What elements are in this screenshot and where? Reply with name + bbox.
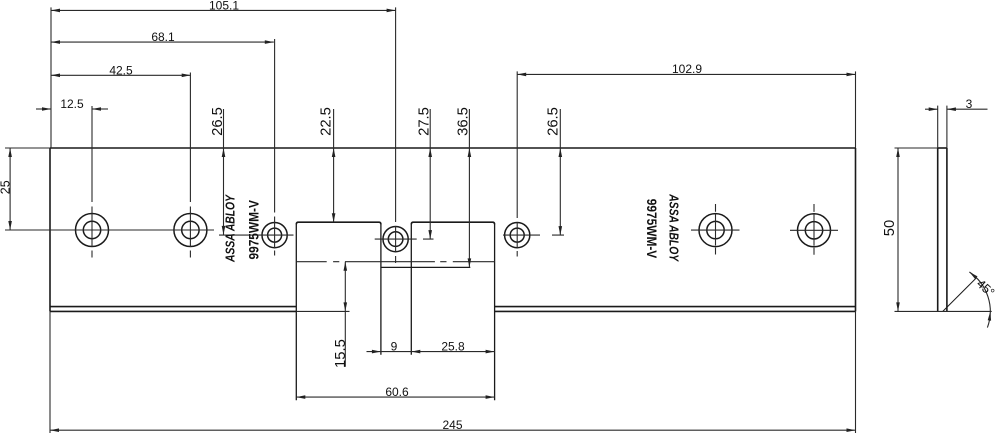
arrows 27.5	[428, 148, 432, 157]
arrows 105.1	[51, 9, 60, 13]
hole H6 inner	[805, 222, 822, 239]
angle 45 arc	[969, 272, 990, 328]
svg-text:25: 25	[0, 180, 13, 194]
pocket dash-dot centerline	[296, 261, 494, 263]
centerline HM vertical	[395, 7, 397, 263]
arrows 12.5 outside	[42, 107, 51, 111]
dim line 42.5	[51, 74, 191, 76]
centerline holes H1 H2 row	[5, 229, 214, 231]
dimension labels	[0, 0, 702, 432]
arrows 245	[50, 428, 59, 432]
svg-text:27.5: 27.5	[417, 107, 433, 136]
hole HM outer	[383, 227, 408, 252]
arrows 25.8	[411, 350, 420, 354]
svg-text:26.5: 26.5	[546, 107, 562, 136]
hole H4 inner	[510, 228, 524, 242]
side view	[938, 148, 977, 311]
pocket left edge	[295, 224, 297, 400]
svg-text:ASSA ABLOY: ASSA ABLOY	[225, 194, 238, 263]
notch right edge	[410, 224, 412, 355]
side view left edge	[937, 148, 939, 311]
arrow 45 arc top	[969, 272, 977, 279]
arrows 26.5 left	[222, 148, 226, 157]
centerline H3 vertical	[274, 39, 276, 256]
arrows 26.5 right	[559, 148, 563, 157]
svg-text:60.6: 60.6	[385, 385, 409, 399]
side view top edge	[938, 147, 947, 149]
pocket right box top edge	[411, 222, 494, 224]
svg-text:245: 245	[442, 418, 462, 432]
hole H1 inner	[83, 221, 100, 238]
centerline H2 vertical	[189, 73, 191, 258]
plate left edge	[49, 148, 51, 311]
hole H3 inner	[268, 228, 282, 242]
svg-text:36.5: 36.5	[456, 107, 472, 136]
hole H5 outer	[699, 214, 732, 247]
svg-text:9975WM-V: 9975WM-V	[246, 200, 262, 260]
centerline H5 vertical	[715, 204, 717, 255]
svg-text:45°: 45°	[974, 277, 997, 300]
arrow 45 arc bottom	[988, 311, 991, 320]
arrows 102.9	[517, 73, 526, 77]
centerline H4 vertical	[516, 71, 518, 256]
dim line 102.9	[517, 73, 855, 75]
svg-text:26.5: 26.5	[210, 107, 226, 136]
hole HM inner	[388, 232, 403, 247]
centerline H6 horizontal	[790, 229, 838, 231]
dim line 3 left segment	[925, 108, 938, 110]
arrows 36.5	[468, 148, 472, 157]
branding text right block	[644, 193, 680, 262]
pocket left box top edge	[296, 222, 381, 224]
ext line plate left bottom	[49, 311, 51, 433]
centerline H6 vertical	[813, 204, 815, 255]
ext lines 3 thickness	[937, 106, 939, 148]
arrows 68.1	[51, 40, 60, 44]
arrows 42.5	[51, 74, 60, 78]
svg-text:105.1: 105.1	[209, 0, 239, 13]
ext line 50 top	[895, 147, 938, 149]
hole H3 outer	[262, 223, 287, 248]
plate top edge	[50, 147, 856, 149]
dim line 60.6	[296, 396, 494, 398]
arrows 25	[8, 148, 12, 157]
dim line 12.5 right segment	[92, 108, 108, 110]
plate bottom edge left	[50, 310, 296, 312]
svg-text:9975WM-V: 9975WM-V	[644, 199, 660, 259]
svg-text:9: 9	[391, 339, 398, 353]
side view right edge	[946, 148, 948, 311]
plate bottom bevel line right	[495, 306, 856, 308]
dim line 22.5 vertical	[333, 109, 335, 222]
hole H5 inner	[707, 221, 724, 238]
arrow 9 outside left	[372, 350, 381, 354]
svg-text:3: 3	[966, 97, 973, 111]
svg-text:25.8: 25.8	[441, 339, 465, 353]
dim line 9 and 25.8	[367, 351, 495, 353]
ext line 15.5 bottom	[296, 310, 349, 312]
dim line 25 vertical	[9, 148, 11, 230]
svg-text:50: 50	[882, 220, 898, 236]
arrows 22.5	[332, 148, 336, 157]
svg-text:15.5: 15.5	[333, 339, 349, 368]
ext line plate left top	[50, 7, 52, 148]
plate bottom bevel line left	[50, 306, 296, 308]
notch left edge	[380, 224, 382, 355]
centerline HM horizontal	[375, 238, 434, 240]
ext line 50 bottom and angle base	[895, 310, 992, 312]
hole H2 outer	[174, 214, 207, 247]
dim line 27.5 vertical	[429, 109, 431, 239]
arrows 60.6	[296, 395, 305, 399]
side view bevel diagonal 45 deg	[943, 278, 977, 312]
centerline H3 horizontal	[219, 234, 294, 236]
dim line 245	[50, 429, 856, 431]
plate bottom edge right	[495, 310, 856, 312]
ext line 25 top	[5, 147, 50, 149]
dim line 68.1	[51, 41, 274, 43]
arrows 50	[896, 148, 900, 157]
centerlines	[5, 7, 838, 263]
hole H2 inner	[182, 221, 199, 238]
dim line 15.5 vertical	[344, 262, 346, 367]
hole H1 outer	[76, 214, 109, 247]
dim line 3 right segment with tail	[947, 108, 988, 110]
dim line 50 vertical	[897, 148, 899, 311]
arrows 3 outside	[929, 107, 938, 111]
hole H6 outer	[798, 214, 831, 247]
svg-text:12.5: 12.5	[60, 97, 84, 111]
svg-text:68.1: 68.1	[151, 30, 175, 44]
plate right edge	[855, 148, 857, 311]
svg-text:22.5: 22.5	[319, 107, 335, 136]
dim line 12.5 left segment	[36, 108, 51, 110]
dim line 26.5 right vertical	[559, 109, 561, 235]
ext line plate right top	[855, 71, 857, 148]
hole H4 outer	[505, 223, 530, 248]
centerline H1 vertical	[91, 106, 93, 258]
holes	[76, 214, 831, 252]
centerline H5 horizontal	[691, 229, 740, 231]
centerline H4 horizontal	[503, 234, 564, 236]
svg-text:ASSA ABLOY: ASSA ABLOY	[666, 193, 679, 262]
dim line 26.5 left vertical	[223, 109, 225, 235]
dim line 105.1	[51, 9, 396, 11]
dim line 36.5 vertical	[468, 109, 470, 267]
notch bottom edge	[381, 266, 470, 268]
svg-text:102.9: 102.9	[672, 62, 702, 76]
svg-text:42.5: 42.5	[109, 63, 133, 77]
arrows 15.5	[344, 262, 348, 271]
branding text left block	[225, 194, 262, 263]
pocket right edge	[494, 224, 496, 400]
ext line plate right bottom	[855, 311, 857, 433]
